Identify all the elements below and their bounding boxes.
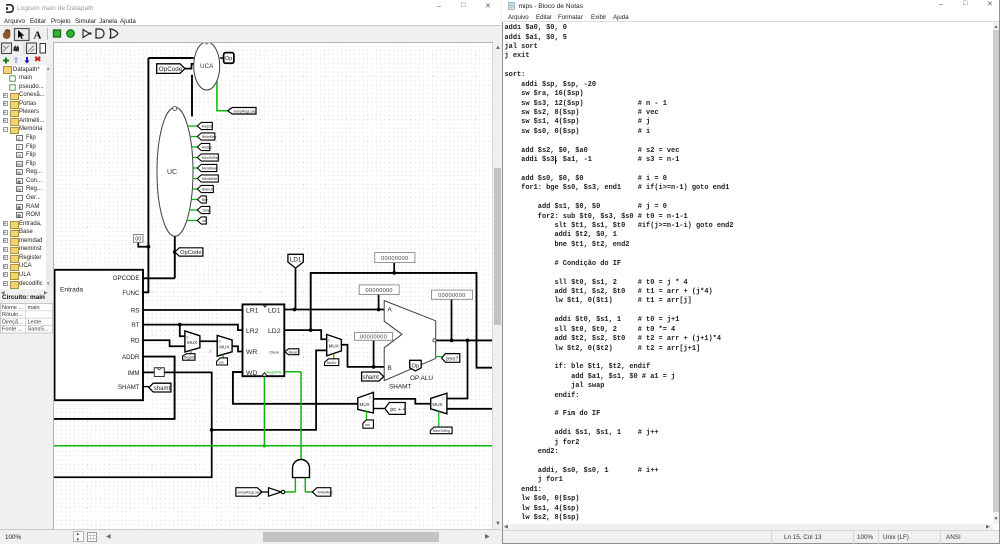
wire LD2 long top run to right edge — [311, 273, 493, 368]
tunnel MemToReg (select) — [430, 427, 452, 434]
svg-text:SansS...: SansS... — [28, 327, 50, 333]
wire green AND input right from WriteReg — [305, 478, 312, 492]
second toolbar row — [0, 42, 54, 68]
tunnel RegDst — [197, 122, 213, 129]
left explorer / attribute panel content inserted here — [0, 42, 54, 529]
svg-text:RT: RT — [131, 322, 139, 329]
svg-text:Direçã...: Direçã... — [2, 319, 23, 325]
wire green UCA to JumpRegLoad tunnel — [217, 75, 228, 111]
wire display3 tap — [451, 299, 453, 340]
tunnel Jump — [197, 206, 210, 213]
green square — [54, 30, 61, 37]
wire RT branch to MUX1 — [180, 325, 185, 337]
register file — [243, 304, 285, 377]
tunnel um (select) — [217, 358, 228, 365]
tunnel um — [197, 217, 207, 224]
curved gate — [110, 29, 118, 38]
svg-text:RD: RD — [131, 338, 140, 345]
wire green AND output up to regfile — [284, 372, 301, 460]
wire LD1 tunnel drop — [295, 268, 297, 309]
tunnel OpCode (lower) — [175, 248, 203, 256]
svg-text:WriteReg: WriteReg — [318, 491, 333, 495]
svg-text:LD1: LD1 — [290, 257, 302, 264]
svg-text:Reset: Reset — [289, 350, 298, 354]
probe hex display 1 00000000 — [375, 253, 415, 263]
svg-text:Op: Op — [412, 363, 420, 369]
green circle — [67, 30, 75, 38]
svg-text:SHAMT: SHAMT — [389, 383, 411, 390]
hand tool — [3, 29, 10, 38]
svg-text:0: 0 — [186, 335, 188, 339]
svg-text:FUNC: FUNC — [122, 290, 140, 297]
wire SHAMT stub to shamt tunnel — [143, 386, 149, 388]
svg-text:RegDst: RegDst — [184, 356, 195, 360]
svg-text:AluSrc: AluSrc — [202, 146, 212, 150]
wire UC OpCode input from OPCODE — [143, 236, 175, 278]
wire UCA input horizontal — [148, 57, 193, 59]
svg-text:0: 0 — [328, 339, 330, 343]
svg-text:WD: WD — [246, 370, 257, 377]
node junction LD1/probe — [293, 308, 297, 312]
svg-text:Branch: Branch — [202, 188, 213, 192]
tunnel jal (select) — [363, 420, 374, 428]
select tool pressed — [15, 29, 30, 41]
svg-text:MUX: MUX — [329, 343, 339, 348]
svg-text:MUX: MUX — [432, 402, 442, 407]
svg-text:zero?: zero? — [446, 357, 459, 363]
wire MUX5 input2 from right edge — [447, 408, 493, 410]
svg-text:Bne: Bne — [202, 198, 208, 202]
node junction at (175,252) — [173, 250, 177, 254]
svg-text:JumpRegLoad: JumpRegLoad — [237, 491, 260, 495]
svg-text:Jump: Jump — [202, 209, 210, 213]
wire green UC output Branch — [192, 188, 197, 190]
op-amp U1 UCA control oval — [194, 42, 220, 90]
svg-text:main: main — [28, 305, 40, 311]
tunnel MemRead — [197, 164, 217, 171]
separator — [47, 28, 48, 40]
wire display1 tap — [393, 263, 395, 273]
tunnel Branch — [197, 185, 213, 192]
wire MUX3 output to ALU B — [341, 345, 384, 367]
wire UCA dangling stub — [191, 75, 193, 117]
multiplexer MUX1 RegDst — [183, 331, 200, 360]
pin Op output — [220, 53, 234, 64]
tunnel JumpRegLoad (top) — [228, 108, 257, 115]
circuit svg placed over canvas — [54, 43, 492, 529]
svg-text:LR2: LR2 — [246, 328, 259, 335]
tunnel WriteReg — [197, 133, 216, 140]
tunnel AluSrc — [197, 143, 212, 150]
svg-text:00: 00 — [135, 237, 141, 243]
svg-text:00000000: 00000000 — [381, 256, 408, 262]
wire green UC output Bne — [191, 199, 197, 201]
probe hex display 2 00000000 — [359, 285, 399, 295]
wire RD to MUX1 — [143, 340, 185, 346]
svg-text:Rótulo...: Rótulo... — [2, 312, 23, 318]
tunnel pc + 4 — [385, 403, 407, 415]
node junction LD2 branch — [309, 328, 313, 332]
svg-text:OP ALU: OP ALU — [410, 375, 433, 382]
svg-text:OPCODE: OPCODE — [113, 275, 140, 282]
tunnel MemToReg — [197, 154, 219, 161]
sign extender — [154, 368, 164, 377]
wire ALU result down to MUX5 input1 — [447, 340, 468, 398]
svg-text:MemToReg: MemToReg — [202, 156, 219, 160]
svg-text:00000000: 00000000 — [366, 288, 393, 294]
svg-text:MemRead: MemRead — [202, 167, 218, 171]
svg-text:MUX: MUX — [360, 402, 370, 407]
D gate — [96, 29, 104, 38]
svg-text:A: A — [34, 30, 42, 42]
wire green UC output AluSrc — [192, 146, 198, 148]
svg-text:OpCode: OpCode — [159, 66, 183, 73]
svg-text:Clear: Clear — [270, 350, 280, 355]
svg-text:um: um — [219, 360, 224, 364]
tunnel zero? — [436, 354, 460, 363]
wire display4 tap — [373, 340, 375, 367]
wire ADDR down-left off canvas — [54, 357, 175, 419]
play — [83, 30, 90, 38]
svg-text:Fonte ...: Fonte ... — [2, 327, 23, 333]
properties — [2, 294, 52, 302]
wire OpCode tunnel to UCA pin — [185, 64, 194, 69]
wire green RegWrite long run — [54, 445, 493, 447]
svg-text:LD2: LD2 — [268, 328, 281, 335]
multiplexer MUX3 ALUSrc — [325, 335, 342, 366]
svg-text:JumpRegLoad: JumpRegLoad — [233, 110, 256, 114]
tree mini hscroll — [0, 289, 54, 295]
tunnel Bne — [197, 196, 208, 203]
wire WD from writeback — [233, 372, 358, 404]
wire RS to LR1 — [143, 309, 243, 311]
wire green UC output MemToReg — [193, 157, 198, 159]
svg-text:WriteReg: WriteReg — [202, 135, 216, 139]
svg-text:shamt: shamt — [154, 386, 171, 392]
AND gate (RegWrite) — [293, 460, 310, 478]
node junction display3 tap — [450, 339, 454, 343]
svg-text:LD1: LD1 — [268, 307, 281, 314]
svg-text:jr: jr — [209, 349, 213, 354]
wire NOT input — [262, 491, 269, 493]
wire green UC output RegDst — [188, 125, 198, 127]
node junction IMM at y=430 — [210, 428, 214, 432]
probe hex display 4 00000000 — [355, 333, 393, 341]
svg-text:um: um — [365, 423, 370, 427]
constant 00 — [134, 235, 143, 243]
svg-text:UCA: UCA — [200, 63, 214, 70]
wire green AND input left from NOT — [285, 478, 296, 492]
svg-text:OpCode: OpCode — [180, 250, 202, 256]
tree — [0, 65, 54, 289]
svg-text:00000000: 00000000 — [438, 293, 465, 299]
svg-text:0: 0 — [219, 340, 221, 344]
svg-text:RegWrite: RegWrite — [267, 370, 282, 374]
tunnel WriteReg (bottom) — [312, 488, 332, 497]
tunnel OpCode (UCA input) — [157, 64, 185, 74]
wire green UC output um — [187, 220, 198, 222]
svg-text:pc + 4: pc + 4 — [390, 407, 407, 413]
wire RT to LR2 — [143, 325, 243, 331]
svg-text:B: B — [388, 365, 392, 372]
svg-text:MUX: MUX — [219, 344, 229, 349]
node junction display4 tap — [372, 365, 376, 369]
row 3: + up down x — [3, 58, 9, 64]
svg-text:MemWrite: MemWrite — [202, 177, 217, 181]
svg-text:WR: WR — [246, 349, 257, 356]
wire immediate to MUX3 input2 — [212, 350, 327, 430]
node junction at (148,247) — [147, 245, 151, 249]
svg-text:Op: Op — [225, 56, 232, 62]
wire LD2 row — [284, 330, 326, 339]
svg-text:SHAMT: SHAMT — [118, 384, 140, 391]
op-amp U2 UC control oval — [157, 107, 193, 237]
svg-text:AluSrc: AluSrc — [327, 361, 337, 365]
svg-text:A: A — [388, 307, 393, 314]
NOT gate — [269, 488, 285, 497]
tunnel Reset — [285, 349, 299, 355]
svg-text:Leste: Leste — [28, 319, 42, 325]
wire MUX2 output to WR — [232, 346, 242, 351]
svg-text:LR1: LR1 — [246, 307, 259, 314]
tunnel MemWrite — [197, 175, 218, 182]
svg-text:um: um — [202, 219, 207, 223]
multiplexer MUX5 MemToReg — [430, 393, 452, 434]
tunnel Op (ALU op input) — [410, 360, 422, 371]
multiplexer MUX4 writeback/pc — [358, 392, 374, 428]
tunnel shamt (ALU side) — [362, 372, 384, 381]
wire IMM through sign-extend, down — [54, 372, 212, 477]
tunnel AluSrc (select) — [325, 359, 339, 366]
svg-text:RegDst: RegDst — [202, 125, 213, 129]
svg-text:IMM: IMM — [127, 370, 139, 377]
tunnel shamt (Entrada side) — [149, 383, 171, 392]
wire MUX1 output to MUX2 — [200, 340, 217, 342]
node junction RT branch — [178, 323, 182, 327]
wire pc+4 tunnel to MUX4 input2 — [373, 408, 384, 410]
node junction display2 tap — [377, 308, 381, 312]
wire FUNC vertical bus x=148 — [143, 58, 148, 292]
wire green UC output MemWrite — [193, 178, 197, 180]
svg-text:RS: RS — [131, 308, 140, 315]
svg-text:Entrada: Entrada — [60, 287, 83, 294]
wire green regfile enable drop — [263, 376, 265, 446]
wire LD1 to ALU A — [284, 309, 384, 311]
multiplexer MUX2 jr — [209, 335, 233, 365]
node green junction regfile enable — [263, 444, 266, 447]
svg-text:Nome ...: Nome ... — [2, 305, 24, 311]
tunnel RegDst (select) — [183, 354, 195, 361]
svg-text:UC: UC — [167, 169, 177, 176]
tunnel LD1 (pentagon) — [288, 254, 303, 268]
wire green UC output Jump — [190, 209, 198, 211]
svg-text:shamt: shamt — [363, 375, 380, 381]
probe hex display 3 00000000 — [432, 290, 473, 299]
node junction display1 tap — [392, 271, 396, 275]
wire ALU result to right edge — [436, 339, 493, 341]
svg-text:00000000: 00000000 — [360, 335, 387, 341]
wire 00-constant to bus — [138, 242, 148, 246]
svg-text:0: 0 — [443, 396, 445, 400]
wire MUX5 output to MUX4 input1 — [373, 399, 430, 404]
ALU — [384, 301, 436, 391]
tunnel JumpRegLoad (bottom) — [236, 488, 262, 497]
svg-text:MUX: MUX — [187, 340, 197, 345]
subcircuit Entrada input decoder — [53, 270, 143, 400]
wire green UC output MemRead — [193, 167, 197, 169]
node junction ALU-result to MUX5 — [466, 339, 470, 343]
svg-text:ADDR: ADDR — [122, 354, 140, 361]
wire green UC output WriteReg — [190, 136, 197, 138]
wire display2 tap — [378, 295, 380, 310]
svg-text:MemToReg: MemToReg — [433, 429, 450, 433]
svg-text:0: 0 — [369, 396, 371, 400]
